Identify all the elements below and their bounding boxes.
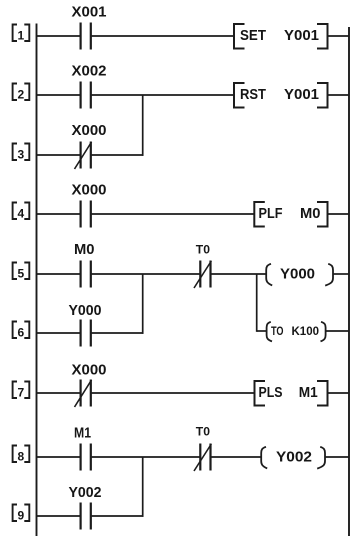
svg-text:K100: K100	[292, 324, 320, 338]
wire rung4 left	[37, 213, 81, 215]
instruction SET Y001 open bracket	[234, 24, 245, 49]
svg-text:X000: X000	[72, 362, 107, 379]
svg-text:Y001: Y001	[284, 27, 319, 44]
svg-text:T0: T0	[196, 243, 211, 257]
svg-text:TO: TO	[271, 324, 284, 338]
instruction RST Y001 open bracket	[234, 83, 245, 108]
coil Y002 close paren	[317, 447, 325, 469]
rung [4] number	[13, 203, 30, 220]
wire TO row to right rail	[327, 330, 350, 332]
svg-text:X000: X000	[72, 122, 107, 139]
wire rung4 to right rail	[328, 213, 350, 215]
wire rung2 mid	[92, 94, 235, 96]
svg-text:9: 9	[18, 509, 25, 523]
svg-text:4: 4	[18, 207, 25, 221]
svg-text:7: 7	[18, 386, 25, 400]
svg-text:Y000: Y000	[280, 266, 315, 283]
instruction PLF M0 open bracket	[254, 202, 264, 227]
instruction RST Y001 close bracket	[317, 83, 328, 108]
svg-text:Y002: Y002	[276, 449, 312, 466]
svg-text:PLF: PLF	[259, 205, 283, 222]
wire rung4 mid	[92, 213, 255, 215]
svg-text:X001: X001	[72, 4, 107, 21]
contact T0 NC rung5	[200, 261, 210, 288]
svg-text:Y002: Y002	[69, 484, 102, 501]
svg-text:5: 5	[18, 267, 25, 281]
instruction PLS M1 open bracket	[255, 381, 266, 406]
contact X002	[81, 82, 91, 109]
wire rung7 mid	[92, 392, 255, 394]
contact X000 rung4	[81, 201, 91, 228]
svg-text:X002: X002	[72, 63, 107, 80]
branch junction rung8 down to rung9	[142, 457, 144, 517]
wire rung6 left	[37, 332, 81, 334]
wire rung5 left	[37, 273, 81, 275]
rung [6] number	[13, 322, 30, 339]
wire rung9 left	[37, 515, 81, 517]
rung [9] number	[13, 505, 30, 522]
contact M0	[81, 261, 91, 288]
contact M1	[81, 444, 91, 471]
svg-text:X000: X000	[72, 182, 107, 199]
wire rung1 left	[37, 35, 81, 37]
wire rung5 to coil	[211, 273, 266, 275]
rung [5] number	[13, 263, 30, 280]
instruction PLF M0 close bracket	[317, 202, 328, 227]
branch wire rung3 up to rung2	[142, 95, 144, 156]
contact X000 NC rung7	[81, 380, 91, 407]
rung [7] number	[13, 382, 30, 399]
wire rung8 to coil	[211, 456, 261, 458]
contact X001	[81, 23, 91, 50]
svg-text:M1: M1	[74, 425, 91, 442]
instruction SET Y001 close bracket	[317, 24, 328, 49]
wire rung8 mid	[92, 456, 200, 458]
svg-text:M0: M0	[74, 241, 95, 258]
wire rung6 to branch	[92, 332, 144, 334]
svg-text:8: 8	[18, 450, 25, 464]
coil Y000 open paren	[266, 264, 272, 286]
svg-text:M0: M0	[300, 205, 321, 222]
wire rung1 mid	[92, 35, 235, 37]
wire rung8 left	[37, 456, 81, 458]
contact Y000	[81, 320, 91, 347]
svg-text:SET: SET	[240, 27, 266, 44]
wire TO row from branch	[257, 330, 267, 332]
NC slash T0 rung8	[194, 444, 211, 471]
wire rung8 coil to right rail	[325, 456, 349, 458]
svg-text:6: 6	[18, 326, 25, 340]
wire rung9 to branch	[92, 515, 144, 517]
rung [2] number	[13, 84, 30, 101]
NC slash rung7	[75, 380, 92, 407]
svg-text:M1: M1	[299, 384, 318, 401]
wire rung1 to right rail	[328, 35, 350, 37]
wire rung3 left	[37, 154, 81, 156]
right power rail	[348, 27, 350, 536]
svg-text:Y001: Y001	[284, 86, 319, 103]
wire rung5 coil to right rail	[333, 273, 349, 275]
wire rung2 left	[37, 94, 81, 96]
branch wire rung6 up to rung5	[142, 274, 144, 334]
NC slash T0 rung5	[194, 261, 211, 288]
rung [1] number	[13, 25, 30, 42]
svg-text:PLS: PLS	[259, 384, 283, 401]
branch junction rung5 down to TO row	[256, 274, 258, 332]
svg-text:2: 2	[18, 88, 25, 102]
instruction PLS M1 close bracket	[317, 381, 328, 406]
wire rung2 to right rail	[328, 94, 350, 96]
coil Y000 close paren	[325, 264, 333, 286]
rung [8] number	[13, 446, 30, 463]
svg-text:RST: RST	[240, 86, 266, 103]
contact X000 NC rung3	[81, 142, 91, 169]
svg-text:Y000: Y000	[69, 302, 102, 319]
wire rung5 mid	[92, 273, 200, 275]
rung [3] number	[13, 144, 30, 161]
contact Y002	[81, 503, 91, 530]
svg-text:T0: T0	[196, 425, 211, 439]
wire rung3 to branch	[92, 154, 144, 156]
wire rung7 left	[37, 392, 81, 394]
left power rail	[36, 24, 38, 536]
instruction TO K100 close paren	[321, 322, 326, 342]
coil Y002 open paren	[261, 447, 267, 469]
svg-text:1: 1	[18, 29, 25, 43]
wire rung7 to right rail	[328, 392, 350, 394]
NC slash rung3	[75, 142, 92, 169]
svg-text:3: 3	[18, 148, 25, 162]
instruction TO K100 open paren	[267, 322, 272, 342]
contact T0 NC rung8	[200, 444, 210, 471]
